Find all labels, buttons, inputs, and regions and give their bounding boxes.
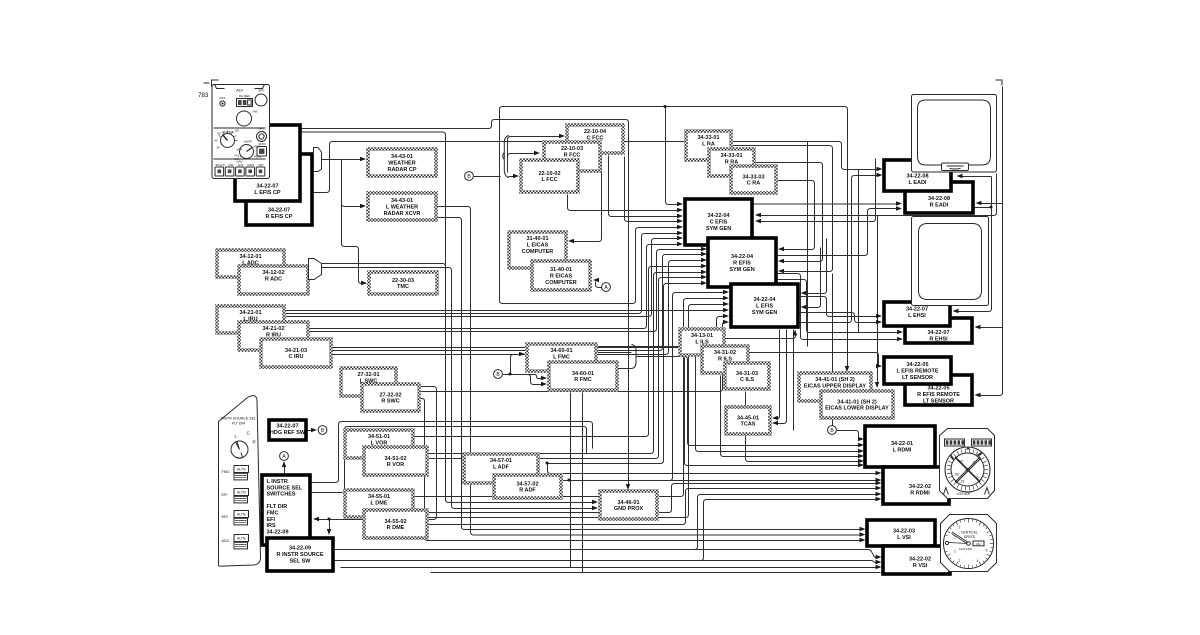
svg-text:+MAP: +MAP xyxy=(244,140,252,144)
arrow into R RDMI y488 xyxy=(876,486,882,490)
svg-text:34-22-07: 34-22-07 xyxy=(256,184,278,190)
arrow into TMC xyxy=(361,281,367,285)
svg-text:TMC: TMC xyxy=(397,284,409,290)
arrow into L INSTR xyxy=(313,517,319,521)
wire L DME to R RDMI y483 xyxy=(414,484,877,513)
wire R SYM GEN to R EADI y208 xyxy=(777,209,900,256)
wire trunk to L EHSI right xyxy=(955,177,992,312)
arrow into L SYM GEN right y307 xyxy=(801,305,807,309)
svg-text:SOURCE SEL: SOURCE SEL xyxy=(267,485,303,491)
wire L INSTR output lower xyxy=(311,427,587,493)
wire brace to C FCC xyxy=(508,137,562,159)
arrow into L VSI y537 xyxy=(860,538,866,542)
wire L INSTR to A xyxy=(284,464,286,476)
svg-text:34-45-01: 34-45-01 xyxy=(737,415,759,421)
svg-text:FMC: FMC xyxy=(267,511,279,517)
svg-text:34-57-01: 34-57-01 xyxy=(490,458,512,464)
svg-text:34-22-05: 34-22-05 xyxy=(927,386,949,392)
wire L SYM GEN down past EICAS xyxy=(793,330,795,431)
arrow into R SYM GEN y249 xyxy=(701,247,707,251)
wire R IRU to L SYM GEN y316 xyxy=(332,317,727,348)
svg-text:SPEED: SPEED xyxy=(964,535,976,539)
svg-text:DH REF: DH REF xyxy=(239,94,250,98)
34-22-02 R RDMI box xyxy=(883,467,949,504)
arrow up to circle A xyxy=(282,461,286,467)
svg-text:NAV2: NAV2 xyxy=(248,163,255,167)
34-51-02 R VOR box xyxy=(364,447,427,475)
svg-text:L ILS: L ILS xyxy=(695,340,709,346)
arrow into L FCC xyxy=(513,174,519,178)
svg-text:34-60-01: 34-60-01 xyxy=(550,348,572,354)
wire C ILS to L REMOTE sensor xyxy=(749,353,881,367)
arrow into R SYM GEN y254 xyxy=(701,252,707,256)
svg-text:R INSTR SOURCE: R INSTR SOURCE xyxy=(276,552,323,558)
svg-text:C EFIS: C EFIS xyxy=(710,219,728,225)
34-12-01 L ADC box xyxy=(217,250,284,277)
arrow into L SYM GEN right y293 xyxy=(801,291,807,295)
arrow into R VSI y567 xyxy=(876,565,882,569)
svg-text:SWITCHES: SWITCHES xyxy=(267,492,296,498)
svg-text:L EFIS REMOTE: L EFIS REMOTE xyxy=(896,368,938,374)
svg-text:34-21-01: 34-21-01 xyxy=(239,310,261,316)
arrow into L EICAS xyxy=(568,239,574,243)
arrow into L EADI y175 xyxy=(877,173,883,177)
34-60-01 R FMC box xyxy=(549,362,617,390)
L EHSI CRT drawing xyxy=(912,217,989,306)
wire ADC to GND PROX y502 xyxy=(322,264,596,503)
svg-text:VERTICAL: VERTICAL xyxy=(961,531,978,535)
svg-text:ALTN: ALTN xyxy=(237,537,246,541)
svg-text:34-22-09: 34-22-09 xyxy=(267,529,289,535)
arrow into R EADI y203 xyxy=(896,201,902,205)
22-30-03 TMC box xyxy=(369,272,437,294)
svg-text:R FCC: R FCC xyxy=(564,153,581,159)
svg-text:6: 6 xyxy=(977,476,979,480)
wire L FCC to C SYM GEN y210 xyxy=(568,195,681,211)
svg-text:R ADF: R ADF xyxy=(519,488,536,494)
svg-text:R ILS: R ILS xyxy=(718,357,732,363)
svg-text:FLT DIR: FLT DIR xyxy=(232,422,246,426)
svg-text:3: 3 xyxy=(973,461,975,465)
svg-text:34-46-01: 34-46-01 xyxy=(617,500,639,506)
wire FMC bundle to L RDMI y445 xyxy=(641,357,861,446)
wire C FCC to C SYM GEN y216 xyxy=(609,156,681,217)
wire R INSTR to R RDMI y494 xyxy=(335,495,877,550)
wire L RA to R SYM GEN right y271 xyxy=(732,146,833,272)
svg-text:TCAS: TCAS xyxy=(741,422,756,428)
arrow into C SYM GEN y221 xyxy=(677,219,683,223)
VSI instrument drawing xyxy=(941,515,997,572)
wire L VOR to R SYM GEN y266 xyxy=(414,267,705,437)
svg-text:34-22-07: 34-22-07 xyxy=(276,424,298,430)
svg-text:R VOR: R VOR xyxy=(387,462,404,468)
wire top trunk to C SYM GEN y204 xyxy=(666,107,681,205)
wire L DME to L SYM GEN y298 xyxy=(414,299,727,497)
arrow into R EHSI right xyxy=(975,325,981,329)
svg-text:C: C xyxy=(247,431,250,436)
svg-text:34-31-02: 34-31-02 xyxy=(714,350,736,356)
arrow into L RDMI y465 xyxy=(858,463,864,467)
svg-text:34-22-03: 34-22-03 xyxy=(893,529,915,535)
svg-text:1: 1 xyxy=(954,550,956,554)
arrow into R RDMI y499 xyxy=(876,497,882,501)
svg-text:L ADC: L ADC xyxy=(242,261,259,267)
funnel EFIS CP outputs xyxy=(314,148,322,172)
wire R EADI output to trunk xyxy=(974,207,992,209)
svg-text:L EICAS: L EICAS xyxy=(527,243,549,249)
22-10-03 R FCC box xyxy=(544,142,600,171)
34-22-05 L EFIS REMOTE LT SENSOR box xyxy=(884,357,951,384)
svg-text:34-21-02: 34-21-02 xyxy=(262,326,284,332)
svg-text:L INSTR: L INSTR xyxy=(267,479,288,485)
svg-text:NAV: NAV xyxy=(237,160,243,164)
arrow into R SYM GEN y283 xyxy=(701,281,707,285)
wire C RA to R SYM GEN right y249 xyxy=(777,181,815,250)
wire R IRU to R SYM GEN y249 xyxy=(309,250,705,332)
svg-text:34-33-03: 34-33-03 xyxy=(742,174,764,180)
svg-text:WEATHER: WEATHER xyxy=(388,161,415,167)
34-22-08 L EADI box xyxy=(884,160,951,191)
arrow into R SYM GEN right y261 xyxy=(778,259,784,263)
arrow into L RDMI y461 xyxy=(858,459,864,463)
arrow into L REMOTE xyxy=(876,364,882,368)
wire to TCAS y418 xyxy=(775,330,780,419)
svg-text:34-22-08: 34-22-08 xyxy=(928,196,950,202)
arrow into L RDMI y445 xyxy=(858,443,864,447)
circle B hdg ref xyxy=(318,426,327,435)
wire R SWC to L SYM GEN y322 xyxy=(420,323,727,392)
RDMI instrument drawing xyxy=(940,429,995,499)
wire trunk to L EADI right xyxy=(960,176,992,178)
34-22-07 L EHSI box xyxy=(884,302,950,326)
wire RA trunk down to B rdmi xyxy=(832,274,834,427)
34-31-03 C ILS box xyxy=(725,363,769,389)
svg-text:34-41-01 (SH 2): 34-41-01 (SH 2) xyxy=(815,377,855,383)
svg-text:30: 30 xyxy=(955,473,959,477)
svg-text:C IRU: C IRU xyxy=(289,354,304,360)
34-46-01 GND PROX box xyxy=(600,491,657,519)
34-22-04 R EFIS SYM GEN box xyxy=(708,238,776,287)
svg-text:L DME: L DME xyxy=(370,501,387,507)
arrow into R FCC xyxy=(534,151,540,155)
34-33-03 C RA box xyxy=(731,166,776,193)
wire R VOR to R SYM GEN y272 xyxy=(428,273,705,454)
arrow into L SYM GEN y310 xyxy=(723,308,729,312)
wire R INSTR to R RDMI y499 xyxy=(335,500,877,561)
34-33-01 L RA box xyxy=(686,131,731,160)
wire R FMC output xyxy=(618,368,632,370)
svg-text:34-12-02: 34-12-02 xyxy=(262,270,284,276)
svg-text:40: 40 xyxy=(215,139,219,143)
svg-text:34-22-09: 34-22-09 xyxy=(289,546,311,552)
wire C SYM GEN to R EADI y203 xyxy=(753,203,900,205)
34-22-04 L EFIS SYM GEN box xyxy=(731,284,798,327)
circle A eicas xyxy=(602,283,611,292)
wire R ILS to L RDMI y456 xyxy=(721,376,861,457)
27-32-01 L SWC box xyxy=(341,368,396,396)
funnel ADC outputs xyxy=(309,259,322,280)
svg-text:INSTR SOURCE SEL: INSTR SOURCE SEL xyxy=(221,417,256,421)
svg-text:R VSI: R VSI xyxy=(913,563,928,569)
wire R FMC bottom to lower bus xyxy=(582,393,584,573)
wire L IRU to C SYM GEN y238 xyxy=(285,239,681,317)
svg-text:L EADI: L EADI xyxy=(909,180,927,186)
svg-text:21: 21 xyxy=(961,480,965,484)
wire junction to R FMC y378 xyxy=(511,375,545,379)
svg-text:L FCC: L FCC xyxy=(541,177,557,183)
svg-text:R RA: R RA xyxy=(725,160,738,166)
arrow into R EHSI y332 xyxy=(897,330,903,334)
wire trunk to EICAS upper display xyxy=(500,107,848,370)
svg-text:R FMC: R FMC xyxy=(574,377,591,383)
svg-text:34-51-01: 34-51-01 xyxy=(368,434,390,440)
arrow into R FMC y384 xyxy=(541,382,547,386)
svg-text:34-12-01: 34-12-01 xyxy=(239,254,261,260)
arrow into TCAS y423 xyxy=(772,421,778,425)
wire brace to R FCC xyxy=(508,154,538,173)
panel corner mark 783 xyxy=(204,80,219,87)
wire stub to weather radar cp xyxy=(322,159,363,161)
wire into L SYM GEN right y293 xyxy=(804,239,827,294)
svg-text:C RA: C RA xyxy=(747,181,760,187)
svg-text:EFI: EFI xyxy=(222,493,228,497)
arrow into L EHSI y322 xyxy=(876,320,882,324)
wire L EFIS CP second output xyxy=(302,132,446,269)
arrow into C SYM GEN right y221 xyxy=(755,219,761,223)
svg-text:L RA: L RA xyxy=(702,142,715,148)
arrow into R SYM GEN right y249 xyxy=(778,247,784,251)
svg-text:BRT: BRT xyxy=(259,89,265,93)
instrument source select panel drawing xyxy=(219,396,261,567)
svg-text:L ADF: L ADF xyxy=(493,465,510,471)
svg-text:34-43-01: 34-43-01 xyxy=(391,198,413,204)
svg-text:RST: RST xyxy=(220,96,226,100)
34-41-01 EICAS lower display box xyxy=(821,391,893,418)
svg-text:R ADC: R ADC xyxy=(265,277,282,283)
svg-text:LT SENSOR: LT SENSOR xyxy=(902,375,933,381)
wire into C SYM GEN right y215 xyxy=(758,174,997,216)
wire R SYM GEN to R EHSI y332 xyxy=(777,280,901,333)
brace FCC fan xyxy=(503,136,509,178)
arrow into C SYM GEN y238 xyxy=(677,236,683,240)
arrow into C SYM GEN y204 xyxy=(677,202,683,206)
svg-text:34-22-02: 34-22-02 xyxy=(909,557,931,563)
svg-text:COMPUTER: COMPUTER xyxy=(522,249,554,255)
34-22-08 R EADI box xyxy=(905,182,973,213)
arrow into R EADI y208 xyxy=(896,206,902,210)
arrow into L SYM GEN y316 xyxy=(723,314,729,318)
svg-text:L EFIS CP: L EFIS CP xyxy=(254,190,281,196)
wire L SYM GEN to L EHSI y316 xyxy=(799,297,880,317)
arrow into EICAS UPPER top xyxy=(845,366,849,372)
svg-text:R EADI: R EADI xyxy=(930,202,949,208)
svg-text:34-13-01: 34-13-01 xyxy=(691,333,713,339)
wire down to R INSTR xyxy=(329,520,331,533)
wire R DME to R RDMI y488 xyxy=(428,489,877,525)
svg-text:R EFIS REMOTE: R EFIS REMOTE xyxy=(917,392,960,398)
wire to TCAS y423 xyxy=(775,330,787,424)
wire C FCC to L EICAS computer xyxy=(571,156,602,242)
svg-text:22-10-03: 22-10-03 xyxy=(561,146,583,152)
arrow into GND PROX y502 xyxy=(592,500,598,504)
arrow into L RDMI y439 xyxy=(858,437,864,441)
svg-text:R IRU: R IRU xyxy=(266,333,281,339)
31-40-01 L EICAS computer box xyxy=(509,232,566,268)
34-12-02 R ADC box xyxy=(239,266,308,294)
svg-text:22-30-03: 22-30-03 xyxy=(392,278,414,284)
svg-text:80: 80 xyxy=(218,132,222,136)
svg-text:R EFIS CP: R EFIS CP xyxy=(266,214,293,220)
svg-text:34-22-07: 34-22-07 xyxy=(268,208,290,214)
svg-text:ALTN: ALTN xyxy=(237,468,246,472)
arrow up into L SYM GEN bottom xyxy=(793,330,797,336)
svg-text:34-41-01 (SH 2): 34-41-01 (SH 2) xyxy=(837,399,877,405)
34-22-05 R EFIS REMOTE LT SENSOR box xyxy=(905,375,972,405)
arrow into R FMC y378 xyxy=(541,376,547,380)
svg-text:FLT DIR: FLT DIR xyxy=(267,504,288,510)
arrow into C SYM GEN y244 xyxy=(677,242,683,246)
svg-text:34-22-01: 34-22-01 xyxy=(891,441,913,447)
arrow into R EHSI y339 xyxy=(897,337,903,341)
arrow into C SYM GEN y227 xyxy=(677,225,683,229)
svg-text:22-10-02: 22-10-02 xyxy=(538,171,560,177)
27-32-02 R SWC box xyxy=(362,384,419,411)
34-13-01 L ILS box xyxy=(680,329,724,355)
arrow into R VSI y562 xyxy=(876,560,882,564)
svg-text:34-51-02: 34-51-02 xyxy=(384,456,406,462)
arrow into L SYM GEN y322 xyxy=(723,320,729,324)
wire L IRU to C SYM GEN y233 xyxy=(285,234,681,314)
svg-text:DST: DST xyxy=(259,163,265,167)
arrow into R SYM GEN right y271 xyxy=(778,269,784,273)
34-43-01 weather radar cp box xyxy=(368,149,436,176)
wire C IRU to R SYM GEN y254 xyxy=(332,255,705,351)
arrow into L RDMI y456 xyxy=(858,454,864,458)
arrow into C FCC xyxy=(559,134,565,138)
svg-text:783: 783 xyxy=(198,92,209,99)
31-40-01 R EICAS computer box xyxy=(532,261,590,290)
svg-text:L EFIS: L EFIS xyxy=(756,303,773,309)
wire R ADF to L SYM GEN y292 xyxy=(570,293,727,481)
arrow into L EADI y169 xyxy=(877,167,883,171)
svg-text:DH: DH xyxy=(976,542,980,546)
svg-text:22-10-04: 22-10-04 xyxy=(584,129,607,135)
arrow into GND PROX top xyxy=(626,484,630,490)
wire B to FCC brace xyxy=(474,176,501,178)
wire band texture 2 xyxy=(858,170,860,333)
34-22-01 L RDMI box xyxy=(865,426,935,467)
svg-text:6: 6 xyxy=(986,549,988,553)
svg-text:34-21-03: 34-21-03 xyxy=(285,348,307,354)
svg-text:34-33-01: 34-33-01 xyxy=(720,153,742,159)
34-21-03 C IRU box xyxy=(261,339,331,367)
wire to C SYM GEN y221 xyxy=(625,157,681,222)
wire XCVR to L VSI y534 xyxy=(437,207,861,536)
arrow into L VSI y532 xyxy=(860,532,866,536)
wire into L SYM GEN right y307 xyxy=(804,248,821,308)
arrow into C SYM GEN right y215 xyxy=(755,213,761,217)
wire L FMC bottom to lower bus xyxy=(570,393,572,568)
svg-text:ALTN: ALTN xyxy=(237,491,246,495)
arrow into R SYM GEN y272 xyxy=(701,270,707,274)
wire C ILS to L RDMI y461 xyxy=(746,392,861,462)
svg-text:34-22-04: 34-22-04 xyxy=(707,213,730,219)
svg-text:34-60-01: 34-60-01 xyxy=(572,371,594,377)
svg-text:ADC: ADC xyxy=(222,539,230,543)
arrow into R RDMI y483 xyxy=(876,481,882,485)
svg-text:2: 2 xyxy=(959,559,961,563)
arrow into R RDMI y478 xyxy=(876,478,882,482)
wire R RA to R SYM GEN right y261 xyxy=(755,163,823,262)
svg-text:L FMC: L FMC xyxy=(553,355,570,361)
arrow into L WEATHER RADAR XCVR xyxy=(360,204,366,208)
sheet corner mark top right xyxy=(996,80,1003,86)
svg-text:RADAR XCVR: RADAR XCVR xyxy=(384,211,421,217)
wire R SWC to L VSI y540 xyxy=(420,399,861,541)
svg-text:HDG REF SW: HDG REF SW xyxy=(270,430,306,436)
svg-text:L IRU: L IRU xyxy=(243,317,257,323)
arrow into L EHSI y316 xyxy=(876,314,882,318)
arrow into C SYM GEN y216 xyxy=(677,214,683,218)
svg-text:34-22-04: 34-22-04 xyxy=(753,297,776,303)
arrow to circle B xyxy=(311,428,317,432)
svg-text:WXR: WXR xyxy=(259,142,267,146)
arrow into R SYM GEN y260 xyxy=(701,258,707,262)
svg-text:34-22-08: 34-22-08 xyxy=(906,174,928,180)
svg-text:R EFIS: R EFIS xyxy=(733,260,751,266)
svg-text:R SWC: R SWC xyxy=(381,399,399,405)
wire right trunk xyxy=(978,87,1003,396)
arrow into R SYM GEN y277 xyxy=(701,275,707,279)
wire L FMC output xyxy=(597,352,632,354)
svg-text:BRT: BRT xyxy=(259,127,265,131)
wire L ILS to L RDMI y465 xyxy=(685,358,861,466)
wire R ADF to R RDMI y478 xyxy=(562,480,877,482)
34-21-01 L IRU box xyxy=(217,306,284,333)
svg-text:L EHSI: L EHSI xyxy=(908,313,926,319)
svg-text:R EHSI: R EHSI xyxy=(929,336,948,342)
svg-text:20: 20 xyxy=(217,146,221,150)
34-22-07 R EHSI box xyxy=(905,318,972,343)
wire bottom line to R VSI y567 xyxy=(341,567,877,569)
wire B to L RDMI y439 xyxy=(837,431,861,440)
svg-text:IRS: IRS xyxy=(222,515,229,519)
arrow into L SYM GEN y298 xyxy=(723,296,729,300)
wire L EFIS CP to GND PROX xyxy=(302,120,629,488)
arrow into L FMC xyxy=(519,352,525,356)
wire bottom line to R VSI y562 xyxy=(335,561,877,563)
wire R EFIS CP long line to L EADI xyxy=(314,142,880,193)
34-60-01 L FMC box xyxy=(527,344,596,371)
svg-text:34-22-05: 34-22-05 xyxy=(906,362,928,368)
34-43-01 L weather radar xcvr box xyxy=(368,193,436,220)
34-33-01 R RA box xyxy=(709,149,754,176)
svg-text:R EICAS: R EICAS xyxy=(550,274,573,280)
wire A to R EICAS computer xyxy=(596,282,603,288)
svg-text:GND PROX: GND PROX xyxy=(614,506,644,512)
34-22-09 R INSTR SOURCE SEL SW box xyxy=(267,538,333,571)
wire brace to L FCC xyxy=(509,176,517,178)
34-45-01 TCAS box xyxy=(726,407,770,434)
circle B fmc xyxy=(494,370,503,379)
22-10-02 L FCC box xyxy=(521,160,578,192)
svg-text:R RDMI: R RDMI xyxy=(910,490,930,496)
34-22-04 C EFIS SYM GEN box xyxy=(685,199,752,245)
svg-text:C FCC: C FCC xyxy=(587,136,604,142)
bracket FMC outputs xyxy=(632,345,641,369)
svg-text:31-40-01: 31-40-01 xyxy=(526,236,548,242)
wire ILS to L SYM GEN bottom xyxy=(725,333,796,339)
